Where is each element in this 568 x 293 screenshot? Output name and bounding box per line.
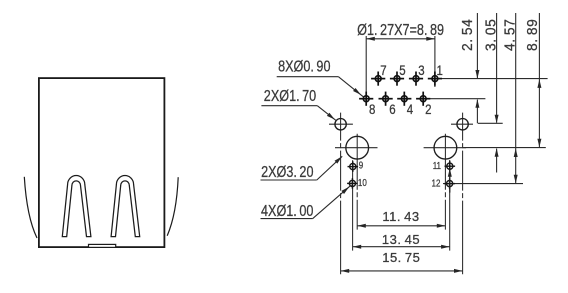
svg-text:11. 43: 11. 43 bbox=[382, 209, 419, 224]
hole numbers bbox=[359, 160, 363, 171]
svg-text:4: 4 bbox=[407, 102, 413, 117]
svg-text:2XØ3. 20: 2XØ3. 20 bbox=[261, 164, 313, 182]
phi 1.70 circle left bbox=[335, 119, 346, 130]
dim 3.05 line upper bbox=[496, 13, 498, 123]
holes left centerline bbox=[352, 160, 354, 250]
pin 3 bbox=[409, 72, 423, 86]
dim 13.45 line bbox=[353, 246, 450, 248]
left contact U bbox=[62, 176, 91, 237]
svg-text:Ø1. 27X7=8. 89: Ø1. 27X7=8. 89 bbox=[357, 21, 444, 39]
pin 2 bbox=[416, 92, 430, 106]
phi 3.20 circle left bbox=[346, 136, 369, 159]
svg-text:8. 89: 8. 89 bbox=[524, 19, 541, 51]
hole 12 bbox=[444, 178, 455, 189]
svg-text:4. 57: 4. 57 bbox=[502, 19, 519, 51]
label 4X phi1.00 bbox=[261, 203, 313, 221]
bottom tab bbox=[89, 244, 116, 247]
15.75 arrows bbox=[341, 269, 350, 273]
hole 9 bbox=[348, 161, 359, 172]
svg-text:6: 6 bbox=[389, 102, 395, 117]
pads pins 1-8 bbox=[359, 72, 442, 106]
phi1.70 right cross horizontal bbox=[451, 123, 473, 125]
big circle left centerline bbox=[356, 134, 358, 230]
svg-text:11: 11 bbox=[433, 160, 441, 171]
label 2X phi1.70 bbox=[264, 88, 316, 106]
svg-text:15. 75: 15. 75 bbox=[382, 250, 420, 265]
svg-text:8: 8 bbox=[369, 102, 375, 117]
dim 2.54 line upper bbox=[476, 13, 478, 78]
dim 8.89 line bbox=[538, 13, 540, 148]
svg-text:5: 5 bbox=[399, 63, 405, 78]
13.45 arrows bbox=[353, 245, 362, 249]
top dimension line bbox=[366, 38, 435, 40]
3.05 arrows bbox=[495, 115, 499, 124]
svg-text:13. 45: 13. 45 bbox=[382, 232, 420, 247]
right contact U bbox=[111, 176, 140, 237]
dim ext line left (through pin8) bbox=[365, 36, 367, 106]
pin 7 bbox=[371, 72, 385, 86]
pin 8 bbox=[359, 92, 373, 106]
dim 15.75 line bbox=[341, 270, 463, 272]
dim 11.43 line bbox=[357, 225, 445, 227]
svg-text:2: 2 bbox=[425, 102, 431, 117]
svg-text:4XØ1. 00: 4XØ1. 00 bbox=[261, 203, 313, 221]
right latch arc bbox=[167, 177, 178, 236]
pin 4 bbox=[397, 92, 411, 106]
centerlines bbox=[329, 113, 473, 275]
svg-text:1: 1 bbox=[437, 63, 443, 78]
2.54 arrows bbox=[475, 70, 479, 79]
small arrow below hole 11 bbox=[449, 171, 451, 193]
leader 8X phi0.90 bbox=[277, 77, 364, 97]
phi3.20 row reference line bbox=[463, 147, 546, 149]
label 2X phi3.20 bbox=[261, 164, 313, 182]
4.57 arrows bbox=[514, 148, 518, 157]
left latch arc bbox=[24, 177, 37, 238]
phi1.70 row reference line bbox=[478, 122, 503, 124]
svg-text:3. 05: 3. 05 bbox=[483, 19, 500, 51]
dim 2.54 line lower bbox=[476, 100, 478, 124]
svg-text:12: 12 bbox=[432, 178, 441, 189]
phi 3.20 circle right bbox=[434, 136, 457, 159]
svg-text:9: 9 bbox=[359, 160, 363, 171]
pin1 row reference line bbox=[442, 78, 548, 80]
svg-text:3: 3 bbox=[418, 63, 424, 78]
leader 2X phi1.70 bbox=[261, 106, 336, 121]
dim text phi1.27X7=8.89 bbox=[357, 21, 444, 39]
leader 2X phi3.20 bbox=[261, 156, 343, 180]
holes 9-12 bbox=[347, 161, 455, 189]
pin 1 bbox=[428, 72, 442, 86]
svg-text:10: 10 bbox=[358, 177, 367, 188]
dim ext line right (through pin1) bbox=[434, 36, 436, 87]
dim 3.05 line lower bbox=[496, 149, 498, 173]
hole12 row reference line bbox=[443, 183, 523, 185]
big circle right cross horizontal bbox=[424, 147, 467, 149]
connector body rectangle bbox=[39, 78, 164, 247]
svg-text:8XØ0. 90: 8XØ0. 90 bbox=[278, 58, 330, 76]
pin numbers bottom row bbox=[369, 102, 375, 117]
svg-text:7: 7 bbox=[380, 63, 386, 78]
leader 4X phi1.00 bbox=[261, 185, 352, 219]
label 8X phi0.90 bbox=[278, 58, 330, 76]
svg-text:2. 54: 2. 54 bbox=[460, 19, 477, 51]
big circle left cross horizontal bbox=[335, 147, 378, 149]
11.43 arrows bbox=[357, 224, 366, 228]
phi1.70 left cross horizontal bbox=[329, 123, 353, 125]
hole 11 bbox=[445, 161, 456, 172]
phi1.70 left centerline bbox=[340, 113, 342, 275]
pin2 row reference line bbox=[430, 98, 486, 100]
svg-text:2XØ1. 70: 2XØ1. 70 bbox=[264, 88, 316, 106]
phi1.70 right centerline bbox=[462, 113, 464, 275]
pin 6 bbox=[379, 92, 393, 106]
8.89 arrows bbox=[537, 79, 541, 88]
top dim arrows bbox=[366, 37, 375, 41]
phi 1.70 circle right bbox=[457, 119, 468, 130]
dim 4.57 line bbox=[515, 13, 517, 184]
hole 10 bbox=[347, 178, 358, 189]
pin numbers top row bbox=[380, 63, 386, 78]
pin 5 bbox=[390, 72, 404, 86]
holes right centerline bbox=[449, 160, 451, 251]
big circle right centerline bbox=[444, 134, 446, 230]
